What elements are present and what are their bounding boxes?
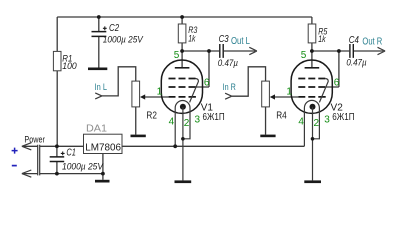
capacitor C3 <box>218 34 238 68</box>
cathode lead <box>312 107 314 181</box>
node Out R <box>362 36 385 54</box>
wire V1 anode lead <box>181 51 183 68</box>
svg-text:Power: Power <box>24 134 45 144</box>
wire out L node <box>182 50 255 52</box>
node V1 g2 <box>207 49 211 53</box>
node V2 anode <box>310 49 314 53</box>
ground R4 <box>260 135 275 138</box>
wire DA1 ground stem <box>102 154 104 180</box>
wire left rail <box>56 17 58 146</box>
g3 to cathode link <box>319 79 328 103</box>
capacitor C4 <box>346 35 366 67</box>
wire top rail <box>57 16 312 18</box>
svg-text:5: 5 <box>301 50 307 61</box>
grid g2 dashes <box>169 86 196 88</box>
plus terminal <box>12 148 18 154</box>
wire R3 leads <box>181 17 183 51</box>
anode plate <box>175 67 190 69</box>
cathode dot <box>310 104 316 110</box>
svg-text:Out L: Out L <box>231 36 250 47</box>
cathode heater arc <box>175 101 190 147</box>
node In L <box>95 82 107 99</box>
node C2 top <box>97 15 101 19</box>
cathode dot <box>180 104 186 110</box>
svg-text:Out R: Out R <box>362 36 382 47</box>
wire C2 leads <box>98 17 100 68</box>
ground R2 <box>131 135 146 138</box>
anode plate <box>305 67 320 69</box>
grid g1 dashes <box>169 96 196 98</box>
ground V2 cathode <box>304 180 321 183</box>
svg-text:1k: 1k <box>188 33 196 44</box>
cathode lead <box>182 107 184 181</box>
wire R4 bottom <box>265 107 267 135</box>
node Out L <box>231 36 257 55</box>
potentiometer R4 <box>262 81 287 121</box>
svg-text:In R: In R <box>223 82 236 92</box>
wire R2 bottom <box>135 107 137 135</box>
junction pin 4 heater rail <box>173 144 177 148</box>
svg-text:2: 2 <box>184 118 190 129</box>
connector Power <box>12 134 45 177</box>
wire R2 wiper to g1 <box>145 96 169 98</box>
svg-text:6Ж1П: 6Ж1П <box>203 112 225 123</box>
svg-text:6: 6 <box>204 78 210 89</box>
svg-text:1: 1 <box>286 86 292 97</box>
svg-text:DA1: DA1 <box>86 124 107 135</box>
capacitor C1 <box>50 147 104 171</box>
wire R5 leads <box>311 17 313 51</box>
wire V2 g2 drop <box>326 51 339 87</box>
wire R4 wiper to g1 <box>275 96 299 98</box>
node minus gnd <box>101 172 105 176</box>
svg-text:In L: In L <box>95 82 107 92</box>
svg-text:1000µ 25V: 1000µ 25V <box>103 35 144 45</box>
cathode heater arc <box>304 100 319 146</box>
resistor R3 <box>178 24 198 44</box>
svg-text:3: 3 <box>195 114 201 125</box>
potentiometer R2 <box>132 81 157 121</box>
node V1 anode <box>180 49 184 53</box>
tube V2 <box>286 50 354 183</box>
node In R <box>223 82 236 99</box>
wire power minus <box>22 173 38 175</box>
ground C2 <box>88 68 107 71</box>
resistor R1 <box>53 51 77 71</box>
svg-text:5: 5 <box>174 50 180 61</box>
g3 to cathode link <box>190 79 199 103</box>
svg-text:1000µ 25V: 1000µ 25V <box>62 161 104 171</box>
wire V1 g2 drop <box>196 51 209 87</box>
minus terminal <box>12 165 17 167</box>
svg-text:R4: R4 <box>276 111 287 122</box>
svg-text:C4: C4 <box>349 35 360 46</box>
grid g1 dashes <box>298 96 325 98</box>
wire In L <box>102 67 136 96</box>
resistor R5 <box>308 24 328 45</box>
svg-text:0.47µ: 0.47µ <box>218 58 238 68</box>
svg-text:6Ж1П: 6Ж1П <box>332 112 354 123</box>
svg-text:C3: C3 <box>219 34 230 45</box>
node V2 g2 <box>337 49 341 53</box>
wire power plus <box>22 145 38 147</box>
svg-text:C2: C2 <box>109 23 120 34</box>
wire heater rail 6V <box>122 145 304 147</box>
node C1 top <box>55 144 59 148</box>
svg-text:1: 1 <box>157 86 163 97</box>
svg-text:6: 6 <box>334 78 340 89</box>
node R3 top <box>180 15 184 19</box>
capacitor C2 <box>92 23 144 44</box>
grid g2 dashes <box>298 86 325 88</box>
grid g3 dashes <box>298 78 325 80</box>
wire V2 anode lead <box>311 51 313 68</box>
wire C1 leads <box>56 146 58 173</box>
tube V1 <box>157 50 225 183</box>
ground V1 cathode <box>175 180 192 183</box>
svg-text:LM7806: LM7806 <box>85 143 121 154</box>
svg-text:4: 4 <box>169 116 175 127</box>
svg-text:R2: R2 <box>146 111 157 122</box>
envelope <box>291 60 332 113</box>
ground DA1 <box>95 180 110 183</box>
svg-text:0.47µ: 0.47µ <box>346 57 366 67</box>
wire minus rail <box>40 173 103 175</box>
wire In R <box>232 67 266 96</box>
svg-text:3: 3 <box>324 114 330 125</box>
wire out R node <box>312 50 384 52</box>
svg-text:100: 100 <box>62 61 77 71</box>
junction pins 2-3 <box>181 137 185 141</box>
regulator DA1 LM7806 <box>84 124 123 154</box>
envelope <box>161 60 202 113</box>
node C1 bottom <box>55 172 59 176</box>
wire connector to DA1 <box>40 145 84 147</box>
junction pins 2-3 <box>311 137 315 141</box>
grid g3 dashes <box>169 78 196 80</box>
svg-text:C1: C1 <box>66 147 76 158</box>
svg-text:4: 4 <box>298 116 304 127</box>
svg-text:2: 2 <box>314 118 320 129</box>
svg-text:1k: 1k <box>318 34 326 45</box>
